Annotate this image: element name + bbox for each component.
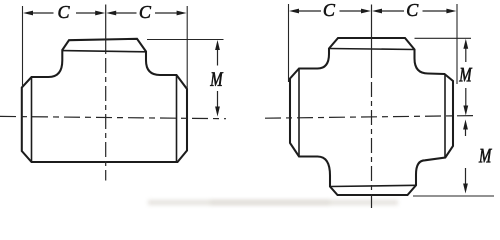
tee left tangent line	[31, 77, 33, 162]
cross label M top	[459, 68, 472, 81]
cross horizontal centerline	[265, 116, 475, 119]
cross arrow M bottom down	[463, 184, 468, 194]
cross arrow C left-left	[289, 9, 299, 14]
dimension C left line	[32, 12, 97, 14]
tee right tangent line	[176, 75, 178, 162]
tee horizontal centerline	[0, 116, 226, 118]
tee frustum inner edge	[62, 51, 146, 52]
cross vertical centerline	[371, 5, 373, 79]
arrow C left-left	[23, 11, 33, 16]
dimension C right line	[115, 12, 178, 14]
tee vertical centerline	[105, 5, 107, 55]
dimension C left extension line	[22, 6, 24, 87]
cross arrow M top down	[463, 106, 468, 116]
cross arrow C left-right	[361, 9, 371, 14]
cross top frustum inner edge	[329, 49, 415, 50]
cross arrow C right-right	[446, 9, 456, 14]
dimension C right extension line	[186, 6, 188, 89]
cross dimension M bottom extension line	[413, 195, 494, 197]
cross right tangent line	[444, 74, 446, 158]
tee outline	[22, 39, 187, 162]
cross left tangent line	[298, 69, 300, 157]
arrow C left-right	[95, 11, 105, 16]
cross dimension C left line	[298, 10, 362, 12]
arrow C right-left	[106, 11, 116, 16]
dimension M extension line	[147, 39, 224, 41]
cross outline	[290, 38, 453, 195]
arrow M up	[215, 40, 220, 50]
cross arrow M bottom up	[463, 120, 468, 130]
cross label C right	[407, 4, 418, 16]
cross dimension C right line	[381, 10, 447, 12]
dimension M line	[217, 48, 219, 108]
cross label M bottom	[479, 149, 492, 162]
cross dimension C right extension line	[456, 4, 458, 84]
arrow M down	[215, 107, 220, 117]
cross arrow M top up	[463, 39, 468, 49]
cross dimension M bottom line	[465, 128, 467, 185]
cross dimension M top extension line	[415, 37, 472, 39]
cross bottom frustum inner edge	[330, 185, 416, 186]
arrow C right-right	[177, 11, 187, 16]
label M left figure	[210, 72, 223, 85]
cross label C left	[324, 4, 335, 16]
label C right	[140, 6, 151, 18]
label C left	[59, 6, 70, 18]
cross dimension C left extension line	[288, 4, 290, 82]
bleedthrough smudge bottom	[148, 200, 398, 205]
cross arrow C right-left	[372, 9, 382, 14]
cross dimension M top line	[465, 47, 467, 107]
